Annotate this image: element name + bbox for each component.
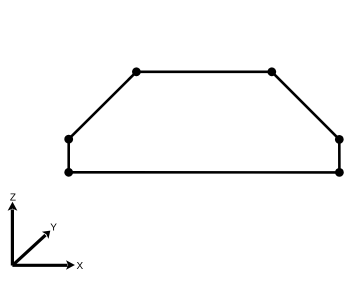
- Z axis arrowhead: [8, 202, 18, 211]
- Z axis shaft: [11, 210, 14, 266]
- node top-left: [132, 67, 141, 76]
- svg-text:X: X: [77, 261, 84, 272]
- node bottom-left: [64, 168, 73, 177]
- node left-mid: [64, 135, 73, 144]
- X axis shaft: [12, 264, 67, 267]
- axis triad: [8, 202, 75, 270]
- Y axis shaft: [12, 235, 45, 265]
- node bottom-right: [335, 168, 344, 177]
- node top-right: [267, 67, 276, 76]
- X axis arrowhead: [66, 260, 75, 270]
- svg-text:Z: Z: [10, 192, 16, 203]
- Y axis arrowhead: [42, 231, 50, 239]
- svg-text:Y: Y: [50, 222, 57, 233]
- node right-mid: [335, 135, 344, 144]
- wire polygon outline: [69, 72, 340, 173]
